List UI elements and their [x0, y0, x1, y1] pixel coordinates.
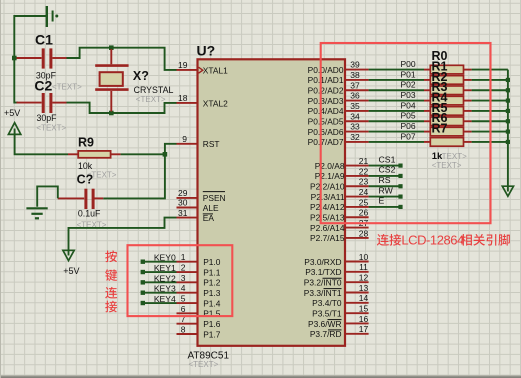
overline PSEN [203, 191, 225, 193]
svg-text:14: 14 [359, 293, 369, 303]
resistor R2 [430, 86, 463, 95]
wire KEY2 to P1.2 [143, 281, 177, 283]
node bus junction R1 [506, 78, 510, 82]
svg-text:21: 21 [359, 156, 369, 166]
terminal dot CS1 [398, 164, 402, 168]
svg-text:<TEXT>: <TEXT> [432, 161, 462, 170]
svg-text:32: 32 [350, 132, 360, 142]
wire P0.4 to R4 [369, 110, 424, 112]
svg-text:26: 26 [359, 208, 369, 218]
svg-text:33: 33 [350, 122, 360, 132]
wire R3 right pin [464, 100, 472, 102]
resistor R9 [78, 151, 110, 158]
wire resistor bus [507, 70, 509, 192]
wire R5 right pin [464, 120, 472, 122]
svg-text:P01: P01 [400, 69, 415, 79]
svg-text:P02: P02 [400, 80, 415, 90]
svg-text:U?: U? [197, 42, 216, 58]
svg-text:24: 24 [359, 187, 369, 197]
wire +5V stem to R9 [15, 129, 68, 155]
svg-text:P2.3/A11: P2.3/A11 [311, 192, 345, 202]
annotation text 相 (LCD note) [461, 234, 472, 246]
svg-text:P1.6: P1.6 [203, 319, 221, 329]
annotation text 连 (LCD note) [377, 234, 389, 246]
node junction crystal bottom [109, 111, 114, 116]
svg-text:17: 17 [359, 324, 369, 334]
svg-text:23: 23 [359, 177, 369, 187]
svg-text:P0.5/AD5: P0.5/AD5 [308, 117, 344, 127]
svg-text:P2.7/A15: P2.7/A15 [310, 233, 345, 243]
svg-text:EA: EA [203, 213, 215, 223]
wire C? left pin [58, 197, 84, 199]
svg-text:10k: 10k [78, 161, 93, 171]
annotation text 连 (keys note) [105, 287, 117, 299]
wire P2.0 net CS1 [369, 165, 401, 167]
terminal dot KEY1 [141, 270, 145, 274]
wire from power terminal to left rail [14, 16, 47, 103]
wire EA to +5V terminal [69, 218, 177, 256]
svg-text:C?: C? [77, 173, 94, 187]
svg-text:P1.7: P1.7 [203, 329, 221, 339]
wire C? right pin [94, 197, 103, 199]
resistor R0 [430, 65, 463, 74]
svg-text:RW: RW [379, 185, 394, 195]
svg-text:13: 13 [359, 283, 369, 293]
svg-text:P2.1/A9: P2.1/A9 [315, 171, 345, 181]
wire R1 right pin [464, 79, 472, 81]
svg-text:+5V: +5V [4, 108, 20, 118]
svg-text:P0.1/AD1: P0.1/AD1 [308, 75, 344, 85]
wire P0.2 to R2 [369, 89, 424, 91]
svg-text:P0.0/AD0: P0.0/AD0 [308, 65, 344, 75]
svg-text:ALE: ALE [203, 203, 219, 213]
power terminal down arrow right [502, 186, 513, 196]
svg-text:1: 1 [181, 252, 186, 262]
wire R2 right pin [464, 89, 472, 91]
svg-text:KEY0: KEY0 [154, 253, 176, 263]
wire R6 right pin [464, 131, 472, 133]
wire P2.2 net RS [369, 185, 401, 187]
svg-text:CS1: CS1 [379, 154, 396, 164]
wire R7 right pin [464, 141, 472, 143]
wire C? to ground [37, 186, 58, 206]
svg-text:39: 39 [350, 60, 360, 70]
power terminal +5V down arrow [63, 250, 74, 260]
svg-text:0.1uF: 0.1uF [78, 208, 101, 218]
annotation text 按 (keys note) [105, 250, 117, 262]
svg-text:30pF: 30pF [37, 113, 58, 123]
chip U? AT89C51 body [198, 59, 346, 346]
svg-text:<TEXT>: <TEXT> [36, 124, 66, 133]
wire R7 to bus [472, 141, 508, 143]
page edge left [0, 0, 1, 378]
svg-text:4: 4 [181, 283, 186, 293]
svg-text:28: 28 [359, 228, 369, 238]
wire P0.6 to R6 [369, 131, 424, 133]
wire P2.1 net CS2 [369, 175, 401, 177]
svg-text:<TEXT>: <TEXT> [136, 95, 166, 104]
svg-text:P2.6/A14: P2.6/A14 [310, 223, 345, 233]
wire R4 right pin [464, 110, 472, 112]
wire R0 to bus [472, 69, 508, 71]
resistor R6 [430, 127, 463, 136]
svg-text:E: E [379, 196, 385, 206]
annotation box LCD pins [321, 43, 491, 223]
svg-text:P07: P07 [400, 131, 415, 141]
wire R3 left pin [424, 100, 430, 102]
chip pin stubs [177, 70, 369, 334]
svg-text:P3.3/INT1: P3.3/INT1 [304, 288, 342, 298]
ground [26, 208, 47, 218]
wire KEY4 to P1.4 [143, 302, 177, 304]
svg-text:38: 38 [350, 70, 360, 80]
terminal dot E [398, 205, 402, 209]
svg-text:P3.0/RXD: P3.0/RXD [304, 257, 341, 267]
svg-text:P0.6/AD6: P0.6/AD6 [308, 127, 344, 137]
node bus junction R4 [506, 109, 510, 113]
wire P0.5 to R5 [369, 120, 424, 122]
wire R0 left pin [424, 69, 430, 71]
resistor R5 [430, 117, 463, 126]
svg-text:9: 9 [182, 134, 187, 144]
wire R4 left pin [424, 110, 430, 112]
svg-text:XTAL2: XTAL2 [203, 98, 228, 108]
node junction C1/rail [12, 56, 17, 61]
terminal dot CS2 [398, 174, 402, 178]
svg-text:P0.7/AD7: P0.7/AD7 [308, 137, 344, 147]
svg-text:P03: P03 [400, 90, 415, 100]
overline INT0 [323, 277, 342, 279]
annotation box keys [128, 245, 233, 316]
power terminal +5V up arrow [8, 123, 20, 135]
svg-text:P1.2: P1.2 [203, 278, 221, 288]
svg-text:31: 31 [178, 208, 188, 218]
svg-text:P2.0/A8: P2.0/A8 [315, 161, 345, 171]
wire C1 left pin [17, 57, 42, 59]
svg-text:30: 30 [178, 198, 188, 208]
terminal dot RW [398, 194, 402, 198]
svg-text:<TEXT>: <TEXT> [189, 360, 219, 369]
svg-text:P3.1/TXD: P3.1/TXD [305, 267, 341, 277]
wire junction down to C? [103, 154, 165, 198]
svg-text:P1.1: P1.1 [203, 267, 221, 277]
terminal dot RS [398, 184, 402, 188]
crystal X? bottom plate [95, 88, 128, 91]
svg-text:8: 8 [181, 324, 186, 334]
svg-text:C1: C1 [35, 32, 53, 48]
wire R1 to bus [472, 79, 508, 81]
capacitor C2 [43, 93, 51, 113]
terminal dot KEY4 [141, 301, 145, 305]
wire KEY0 to P1.0 [143, 261, 177, 263]
svg-text:CS2: CS2 [379, 165, 396, 175]
svg-text:KEY3: KEY3 [154, 284, 176, 294]
node bus junction R2 [506, 88, 510, 92]
wire R2 left pin [424, 89, 430, 91]
svg-text:KEY2: KEY2 [154, 273, 176, 283]
svg-text:12: 12 [359, 273, 369, 283]
capacitor C? 0.1uF [86, 189, 93, 209]
svg-text:29: 29 [178, 188, 188, 198]
svg-text:P06: P06 [400, 121, 415, 131]
wire R5 left pin [424, 120, 430, 122]
svg-text:34: 34 [350, 111, 360, 121]
pin arrow XTAL1 clock input [199, 67, 203, 73]
svg-text:<TEXT>: <TEXT> [52, 82, 82, 91]
annotation text 键 (keys note) [105, 269, 117, 281]
svg-text:P2.4/A12: P2.4/A12 [310, 202, 345, 212]
annotation text 脚 (LCD note) [498, 234, 510, 246]
svg-text:KEY4: KEY4 [154, 294, 176, 304]
svg-text:18: 18 [178, 93, 188, 103]
wire P2.4 net E [369, 206, 401, 208]
svg-text:P2.5/A13: P2.5/A13 [310, 213, 345, 223]
wire C1 to XTAL1 [67, 48, 177, 70]
wire KEY3 to P1.3 [143, 292, 177, 294]
svg-text:P0.2/AD2: P0.2/AD2 [308, 86, 344, 96]
svg-text:P1.4: P1.4 [203, 298, 221, 308]
svg-text:6: 6 [181, 304, 186, 314]
capacitor C1 [43, 48, 51, 68]
svg-text:16: 16 [359, 314, 369, 324]
wire P2.3 net RW [369, 196, 401, 198]
svg-text:CRYSTAL: CRYSTAL [134, 85, 174, 95]
wire C1 right pin [52, 57, 66, 59]
wire R6 left pin [424, 131, 430, 133]
wire crystal bottom pin [110, 91, 112, 112]
wire junction to RST pin [165, 144, 177, 155]
svg-text:KEY1: KEY1 [154, 263, 176, 273]
svg-text:RS: RS [379, 175, 391, 185]
svg-text:3: 3 [181, 273, 186, 283]
svg-text:P0.4/AD4: P0.4/AD4 [308, 106, 344, 116]
svg-text:25: 25 [359, 197, 369, 207]
wire R6 to bus [472, 131, 508, 133]
wire R4 to bus [472, 110, 508, 112]
terminal dot KEY2 [141, 280, 145, 284]
annotation text 接 (keys note) [105, 301, 117, 313]
svg-text:P05: P05 [400, 111, 415, 121]
wire R7 left pin [424, 141, 430, 143]
wire R3 to bus [472, 100, 508, 102]
node bus junction R6 [506, 129, 510, 133]
annotation text 接 (LCD note) [389, 234, 401, 246]
svg-text:P3.7/RD: P3.7/RD [310, 329, 342, 339]
annotation text 关 (LCD note) [473, 234, 485, 246]
resistor R4 [430, 107, 463, 116]
svg-text:15: 15 [359, 304, 369, 314]
svg-text:36: 36 [350, 91, 360, 101]
overline INT1 [324, 288, 342, 290]
wire R5 to bus [472, 120, 508, 122]
svg-text:37: 37 [350, 80, 360, 90]
svg-text:X?: X? [133, 69, 149, 83]
resistor R3 [430, 96, 463, 105]
node bus junction R7 [506, 140, 510, 144]
resistor R1 [430, 76, 463, 85]
svg-text:P04: P04 [400, 100, 415, 110]
wire C2 left pin [17, 102, 42, 104]
wire C2 right pin [52, 102, 66, 104]
svg-text:P1.0: P1.0 [203, 257, 221, 267]
wire R9 to RST junction [121, 153, 165, 155]
node junction crystal top [109, 45, 114, 50]
crystal X? top plate [95, 64, 128, 67]
svg-text:P1.3: P1.3 [203, 288, 221, 298]
svg-text:PSEN: PSEN [203, 193, 226, 203]
wire crystal top pin [110, 49, 112, 64]
terminal dot KEY3 [141, 290, 145, 294]
annotation text 引 (LCD note) [486, 234, 496, 246]
svg-text:P2.2/A10: P2.2/A10 [310, 182, 345, 192]
crystal X? body [100, 72, 123, 86]
svg-text:P3.5/T1: P3.5/T1 [312, 308, 342, 318]
wire R9 left pin [68, 153, 78, 155]
node bus junction R3 [506, 98, 510, 102]
overline EA [203, 213, 213, 215]
svg-text:22: 22 [359, 166, 369, 176]
wire C2 to XTAL2 [67, 103, 177, 113]
svg-text:35: 35 [350, 101, 360, 111]
overline WR [328, 319, 342, 321]
svg-text:R7: R7 [432, 122, 448, 136]
wire P0.1 to R1 [369, 79, 424, 81]
svg-text:P3.2/INT0: P3.2/INT0 [304, 277, 342, 287]
wire P0.3 to R3 [369, 100, 424, 102]
svg-text:P3.4/T0: P3.4/T0 [312, 298, 342, 308]
svg-text:11: 11 [359, 262, 368, 272]
svg-text:5: 5 [181, 293, 186, 303]
terminal dot KEY0 [141, 260, 145, 264]
svg-text:R9: R9 [78, 135, 94, 149]
svg-text:RST: RST [203, 139, 220, 149]
svg-text:P0.3/AD3: P0.3/AD3 [308, 96, 344, 106]
svg-text:XTAL1: XTAL1 [203, 65, 228, 75]
svg-text:P00: P00 [400, 59, 415, 69]
node bus junction R5 [506, 119, 510, 123]
wire P0.0 to R0 [369, 69, 424, 71]
wire KEY1 to P1.1 [143, 271, 177, 273]
wire R2 to bus [472, 89, 508, 91]
wire R1 left pin [424, 79, 430, 81]
svg-text:+5V: +5V [63, 266, 79, 276]
page edge bottom [0, 375, 521, 376]
wire R9 right pin [111, 153, 121, 155]
svg-text:P3.6/WR: P3.6/WR [308, 319, 342, 329]
overline RD [328, 329, 342, 331]
node junction RST [163, 152, 168, 157]
svg-text:LCD-12864: LCD-12864 [401, 233, 464, 248]
wire R0 right pin [464, 69, 472, 71]
wire P0.7 to R7 [369, 141, 424, 143]
svg-text:2: 2 [181, 262, 186, 272]
resistor R7 [430, 138, 463, 147]
svg-text:10: 10 [359, 252, 369, 262]
svg-text:C2: C2 [34, 78, 52, 94]
svg-text:19: 19 [178, 60, 188, 70]
power terminal VCC top-left [47, 6, 59, 27]
